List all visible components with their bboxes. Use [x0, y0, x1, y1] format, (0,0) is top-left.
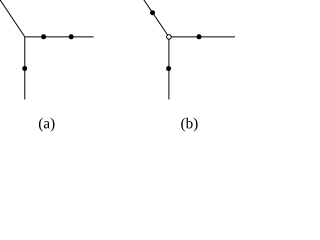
wire: diagonal edge of figure (a): [0, 0, 25, 37]
node: filled vertex on diagonal edge of (b): [150, 10, 155, 15]
wire: horizontal edge of figure (b): [169, 36, 236, 38]
wire: diagonal edge of figure (b): [143, 0, 169, 37]
node: open (white) vertex at junction of (b): [167, 35, 172, 40]
node: first filled vertex on horizontal edge of (a): [41, 34, 46, 39]
label (a): [39, 118, 55, 132]
node: second filled vertex on horizontal edge of (a): [69, 34, 74, 39]
label (b): [181, 118, 197, 132]
node: filled vertex on horizontal edge of (b): [197, 34, 202, 39]
wire: horizontal edge of figure (a): [25, 36, 94, 38]
node: filled vertex on vertical edge of (b): [166, 66, 171, 71]
wire: vertical edge of figure (a): [24, 37, 26, 100]
node: filled vertex on vertical edge of (a): [22, 66, 27, 71]
wire: vertical edge of figure (b): [168, 37, 170, 100]
